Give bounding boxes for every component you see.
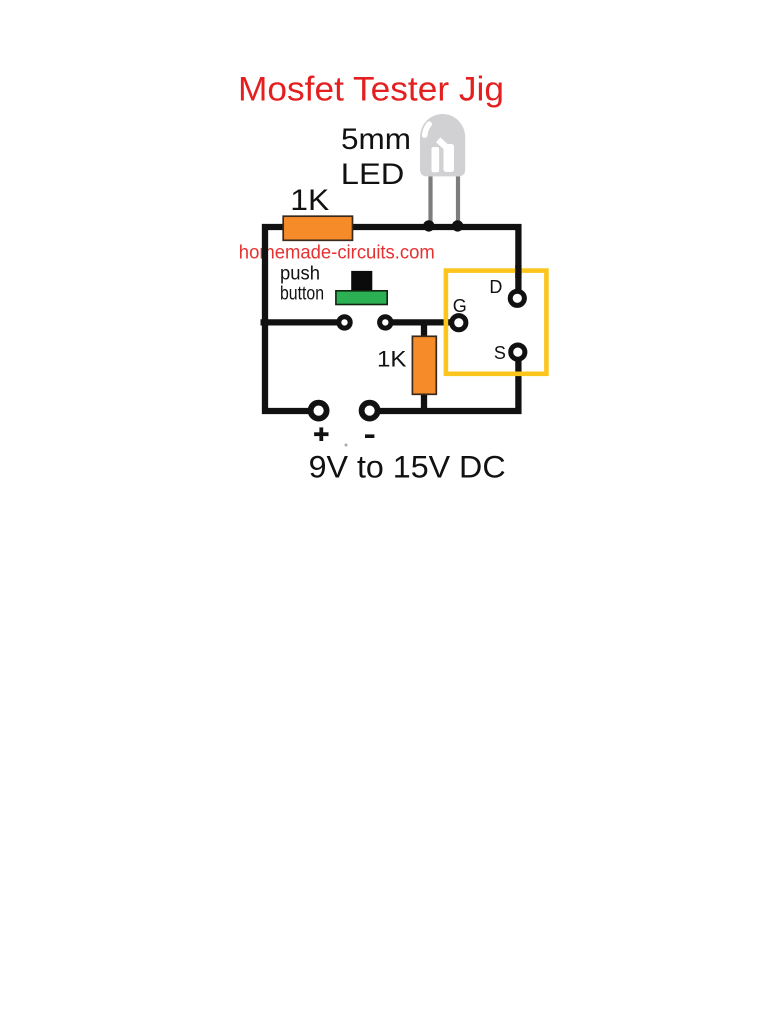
LED highlight right bar	[444, 144, 455, 172]
label: -	[365, 434, 374, 438]
svg-text:1K: 1K	[290, 184, 329, 217]
wire: push button left	[261, 319, 340, 325]
svg-text:Mosfet Tester Jig: Mosfet Tester Jig	[238, 71, 504, 109]
wire: source drop to bottom rail	[515, 352, 521, 414]
wire: R2 top stub	[421, 320, 427, 340]
LED leg left (cathode)	[428, 176, 432, 226]
node: drain terminal D	[510, 291, 524, 305]
LED highlight arc	[425, 124, 430, 135]
svg-text:1K: 1K	[377, 347, 407, 372]
wire: top rail	[262, 224, 521, 230]
push button SW1 cap	[351, 271, 372, 291]
label: push button	[280, 264, 324, 305]
svg-text:5mm: 5mm	[341, 123, 411, 156]
svg-text:S: S	[494, 343, 506, 363]
wire: bottom-left to + terminal	[262, 408, 310, 414]
wire: bottom rail from - terminal	[378, 408, 521, 414]
node: push button contact right	[380, 317, 391, 328]
wire: push button right to gate	[391, 319, 452, 325]
LED D1 body	[420, 114, 465, 176]
speck artifact	[345, 444, 348, 447]
resistor R1 1K horizontal	[283, 216, 352, 240]
junction dot left	[423, 220, 434, 231]
svg-text:D: D	[489, 277, 502, 297]
wire: R2 bottom stub	[421, 392, 427, 412]
MOSFET socket box	[446, 271, 547, 374]
node: - supply terminal	[362, 403, 378, 419]
resistor R2 1K vertical	[412, 336, 436, 394]
push button SW1 base	[336, 291, 387, 305]
svg-text:button: button	[280, 284, 324, 305]
svg-text:G: G	[453, 296, 467, 316]
LED leg right (anode)	[456, 176, 460, 226]
wire: left rail	[262, 224, 268, 414]
svg-text:homemade-circuits.com: homemade-circuits.com	[239, 243, 435, 264]
junction dot right	[452, 220, 463, 231]
svg-text:9V to 15V DC: 9V to 15V DC	[309, 449, 506, 485]
svg-text:push: push	[280, 264, 320, 285]
node: source terminal S	[511, 345, 525, 359]
wire: drain drop (top right)	[515, 224, 521, 294]
label: +	[314, 427, 328, 441]
node: push button contact left	[339, 317, 350, 328]
wire: drain drop over box border	[515, 265, 521, 278]
LED highlight left bar	[432, 147, 440, 172]
node: gate terminal G	[452, 316, 466, 330]
LED highlight streak	[438, 140, 445, 147]
svg-text:LED: LED	[341, 158, 405, 191]
node: + supply terminal	[311, 403, 327, 419]
label: 5mm LED	[341, 123, 411, 191]
